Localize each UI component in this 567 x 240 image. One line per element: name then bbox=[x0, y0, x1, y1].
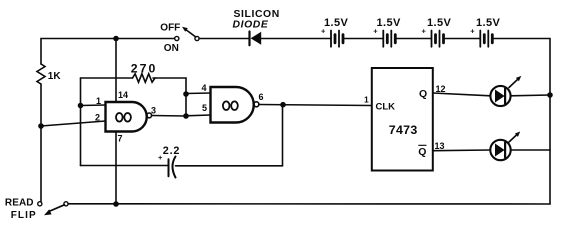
node cap feedback junction bbox=[280, 102, 286, 108]
svg-text:1K: 1K bbox=[48, 71, 62, 82]
svg-text:5: 5 bbox=[202, 103, 207, 113]
svg-text:READ: READ bbox=[5, 198, 34, 209]
bubble pin6 bbox=[254, 102, 259, 107]
resistor 1K bbox=[37, 64, 45, 84]
wire B1 to B2 bbox=[344, 38, 382, 40]
wire cap right segment bbox=[176, 165, 283, 167]
wire LED2 to right rail bbox=[511, 149, 550, 151]
svg-text:1.5V: 1.5V bbox=[324, 17, 348, 29]
wire pin6 to CLK bbox=[259, 105, 371, 106]
node pin4 tap bbox=[183, 91, 189, 97]
svg-text:FLIP: FLIP bbox=[11, 210, 37, 221]
switch S1 OFF/ON bbox=[175, 36, 179, 40]
wire cap feedback vertical bbox=[282, 105, 284, 166]
capacitor C1 2.2 bbox=[168, 159, 170, 176]
wire LED1 to right rail bbox=[511, 94, 550, 97]
svg-text:+: + bbox=[470, 27, 475, 36]
battery B2 1.5V bbox=[373, 17, 401, 47]
wire 270 right segment + right vertical x186 bbox=[153, 78, 186, 116]
diode D1 silicon bbox=[248, 32, 250, 46]
svg-text:14: 14 bbox=[118, 90, 128, 100]
wire 270 top segment left bbox=[81, 77, 133, 79]
svg-text:2: 2 bbox=[95, 113, 100, 123]
resistor 270 bbox=[133, 74, 155, 82]
svg-text:4: 4 bbox=[202, 83, 207, 93]
svg-text:DIODE: DIODE bbox=[233, 20, 269, 31]
wire B4 to right rail corner and right vertical bbox=[494, 39, 550, 205]
op gate U1A 7400 NAND bbox=[106, 102, 147, 132]
node top rail junction bbox=[113, 36, 119, 42]
wire pin2 bbox=[41, 121, 106, 126]
svg-text:+: + bbox=[422, 27, 427, 36]
wire bottom rail bbox=[68, 203, 550, 205]
label OO inside U1A bbox=[116, 113, 123, 122]
wire pin7 drop bbox=[115, 132, 117, 205]
switch S2 READ FLIP bbox=[38, 202, 42, 206]
node pin2 junction on left rail bbox=[38, 123, 44, 129]
svg-text:1.5V: 1.5V bbox=[427, 17, 451, 29]
battery B3 1.5V bbox=[422, 17, 452, 47]
svg-text:+: + bbox=[158, 153, 163, 162]
svg-text:6: 6 bbox=[259, 92, 264, 102]
wire switch to diode bbox=[199, 38, 248, 40]
wire pin1 bbox=[81, 104, 106, 107]
wire cap left segment bbox=[81, 165, 169, 167]
svg-text:7: 7 bbox=[118, 134, 123, 144]
wire 270 feedback top: left vertical x80.5 bbox=[80, 78, 82, 166]
svg-text:Q: Q bbox=[419, 88, 427, 100]
wire B3 to B4 bbox=[445, 38, 480, 40]
wire pin14 drop from top rail bbox=[115, 39, 117, 103]
wire pin5 bbox=[186, 114, 211, 117]
svg-text:ON: ON bbox=[164, 43, 179, 54]
svg-text:Q: Q bbox=[418, 146, 426, 158]
svg-text:7473: 7473 bbox=[389, 123, 418, 137]
svg-text:SILICON: SILICON bbox=[234, 9, 280, 20]
wire diode to battery B1 bbox=[261, 38, 330, 40]
op gate U1B 7400 NAND bbox=[211, 87, 254, 123]
IC U2 7473 bbox=[372, 68, 433, 171]
svg-text:OFF: OFF bbox=[160, 23, 180, 34]
svg-text:1.5V: 1.5V bbox=[377, 17, 401, 29]
node pin5/pin3 tap bbox=[183, 113, 189, 119]
bubble pin3 bbox=[147, 113, 152, 118]
battery B1 1.5V bbox=[321, 17, 348, 47]
svg-text:1: 1 bbox=[364, 95, 369, 105]
svg-text:2.2: 2.2 bbox=[163, 145, 180, 157]
wire Q to LED1 bbox=[433, 93, 491, 96]
label OO inside U1B bbox=[223, 101, 230, 110]
battery B4 1.5V bbox=[470, 17, 500, 47]
svg-text:3: 3 bbox=[151, 106, 156, 116]
svg-text:1.5V: 1.5V bbox=[476, 17, 500, 29]
LED D2 bbox=[490, 76, 521, 106]
svg-text:13: 13 bbox=[435, 141, 445, 151]
wire Qbar to LED2 bbox=[433, 149, 491, 152]
node right rail at LED1 row bbox=[547, 92, 553, 98]
node bottom rail pin7 junction bbox=[113, 201, 119, 207]
svg-text:CLK: CLK bbox=[376, 102, 396, 113]
node pin1 junction bbox=[78, 103, 84, 109]
wire B2 to B3 bbox=[397, 38, 431, 40]
wire pin3 output bbox=[152, 115, 186, 118]
wire left vertical below 1K bbox=[40, 84, 42, 202]
svg-text:1: 1 bbox=[96, 96, 101, 106]
LED D3 bbox=[490, 132, 520, 161]
wire pin4 bbox=[186, 92, 211, 95]
wire top rail left bbox=[41, 39, 175, 65]
svg-text:270: 270 bbox=[131, 62, 158, 76]
